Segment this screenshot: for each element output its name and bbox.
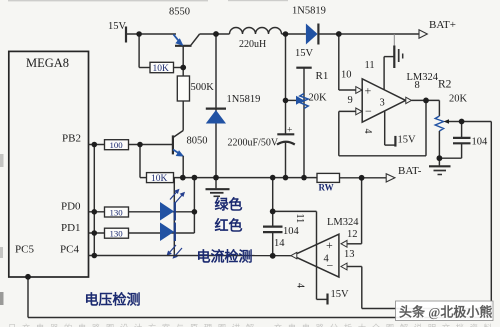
- svg-text:BAT+: BAT+: [429, 19, 456, 31]
- svg-text:13: 13: [344, 249, 355, 260]
- svg-text:130: 130: [110, 207, 124, 217]
- svg-text:绿色: 绿色: [215, 197, 243, 214]
- svg-text:1N5819: 1N5819: [292, 6, 326, 17]
- svg-text:−: −: [365, 104, 372, 118]
- svg-text:1N5819: 1N5819: [227, 94, 261, 105]
- svg-text:15V: 15V: [108, 21, 127, 32]
- svg-text:9: 9: [348, 95, 353, 106]
- svg-text:500K: 500K: [191, 82, 215, 93]
- svg-text:2200uF/50V: 2200uF/50V: [228, 138, 279, 149]
- svg-text:电压检测: 电压检测: [85, 292, 141, 309]
- svg-text:4: 4: [295, 283, 306, 288]
- svg-text:130: 130: [110, 229, 124, 239]
- svg-text:220uH: 220uH: [239, 39, 266, 50]
- svg-text:4: 4: [362, 129, 373, 134]
- svg-text:日充电器的电路图设计方案与原理图讲解，充电电路分析大全图解说: 日充电器的电路图设计方案与原理图讲解，充电电路分析大全图解说明文档资料: [8, 323, 492, 327]
- svg-text:104: 104: [472, 137, 489, 148]
- svg-text:R2: R2: [438, 79, 452, 91]
- svg-text:8: 8: [415, 80, 420, 91]
- svg-text:+: +: [287, 126, 292, 136]
- svg-text:LM324: LM324: [407, 72, 439, 83]
- svg-text:3: 3: [380, 98, 385, 109]
- svg-text:10K: 10K: [153, 64, 170, 74]
- svg-text:+: +: [365, 84, 372, 98]
- svg-text:+: +: [326, 238, 333, 252]
- svg-text:4: 4: [324, 254, 330, 265]
- svg-text:20K: 20K: [449, 94, 468, 105]
- svg-text:BAT-: BAT-: [398, 165, 422, 177]
- svg-text:10: 10: [341, 70, 352, 81]
- svg-text:LM324: LM324: [327, 217, 359, 228]
- svg-text:11: 11: [294, 214, 305, 224]
- svg-text:100: 100: [110, 140, 124, 150]
- svg-text:RW: RW: [319, 183, 334, 193]
- svg-text:15V: 15V: [295, 48, 314, 59]
- svg-text:PD0: PD0: [61, 201, 81, 213]
- svg-text:8550: 8550: [169, 7, 190, 18]
- svg-text:PC5: PC5: [15, 244, 34, 256]
- svg-text:PC4: PC4: [60, 244, 79, 256]
- svg-text:头条 @北极小熊: 头条 @北极小熊: [399, 305, 492, 320]
- svg-text:电流检测: 电流检测: [197, 249, 253, 266]
- svg-text:104: 104: [283, 226, 300, 237]
- svg-text:20K: 20K: [309, 93, 328, 104]
- svg-text:10K: 10K: [151, 174, 168, 184]
- svg-text:R1: R1: [316, 70, 329, 82]
- svg-text:14: 14: [274, 238, 285, 249]
- svg-text:11: 11: [365, 60, 375, 71]
- svg-text:15V: 15V: [331, 289, 350, 300]
- svg-text:8050: 8050: [187, 136, 208, 147]
- svg-text:PD1: PD1: [61, 222, 81, 234]
- svg-text:12: 12: [347, 229, 358, 240]
- svg-text:MEGA8: MEGA8: [26, 56, 69, 70]
- svg-text:15V: 15V: [398, 135, 417, 146]
- svg-text:PB2: PB2: [62, 133, 81, 145]
- svg-text:红色: 红色: [215, 218, 243, 235]
